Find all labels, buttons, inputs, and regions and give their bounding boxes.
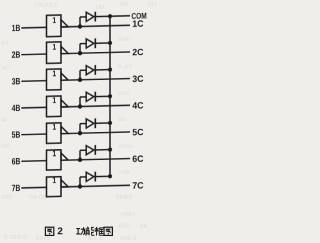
wire output of U1 to 1C	[61, 25, 130, 27]
diode D1 (output 1C to COM)	[86, 11, 110, 21]
wire output of U4 to 4C	[61, 105, 130, 107]
svg-text:AN0: AN0	[118, 36, 131, 43]
wire output of U6 to 6C	[61, 159, 130, 161]
wire input 4B to buffer U4	[21, 106, 46, 109]
wire node up to diode D6 anode	[80, 150, 86, 160]
svg-text:M8: M8	[1, 143, 10, 150]
wire node up to diode D1 anode	[80, 17, 86, 27]
svg-text:8888: 8888	[36, 235, 51, 242]
svg-text:80: 80	[1, 40, 9, 47]
svg-text:09089,1: 09089,1	[34, 2, 58, 9]
node on output 5C line (junction dot)	[78, 131, 82, 136]
buffer U6 (box "1" driver)	[47, 150, 69, 170]
node diode D2 cathode on COM rail	[108, 41, 112, 45]
output label 7C	[133, 182, 144, 189]
wire node up to diode D5 anode	[80, 124, 86, 134]
buffer U5 (box "1" driver)	[47, 123, 69, 144]
svg-text:WF: WF	[1, 65, 11, 72]
buffer U4 (box "1" driver)	[47, 96, 69, 117]
node diode D7 cathode on COM rail	[108, 174, 112, 178]
input label 2B	[12, 51, 20, 57]
svg-text:888 8: 888 8	[120, 235, 137, 242]
diode D2 (output 2C to COM)	[86, 38, 110, 48]
node diode D5 cathode on COM rail	[108, 121, 112, 125]
node on output 7C line (junction dot)	[78, 184, 82, 189]
output label 3C	[133, 75, 144, 82]
svg-text:88: 88	[140, 223, 148, 230]
svg-text:An80: An80	[118, 143, 134, 150]
svg-text:A88: A88	[118, 169, 130, 176]
wire output of U7 to 7C	[61, 185, 130, 187]
svg-text:8B: 8B	[120, 1, 128, 8]
input label 5B	[12, 131, 20, 137]
input label 4B	[12, 105, 20, 111]
wire node up to diode D2 anode	[80, 44, 86, 54]
node diode D3 cathode on COM rail	[108, 67, 112, 71]
svg-text:6.1m: 6.1m	[118, 63, 132, 70]
node on output 6C line (junction dot)	[78, 158, 82, 163]
diode D4 (output 4C to COM)	[86, 91, 110, 101]
COM rail (common cathode vertical wire)	[109, 16, 111, 176]
svg-text:W: W	[1, 117, 8, 124]
wire output of U3 to 3C	[61, 79, 130, 81]
buffer U7 (box "1" driver)	[47, 176, 69, 196]
wire COM rail to COM pin	[110, 15, 130, 17]
svg-text:8 98800: 8 98800	[4, 234, 28, 241]
wire output of U5 to 5C	[61, 132, 130, 134]
wire input 7B to buffer U7	[21, 186, 46, 189]
diode D5 (output 5C to COM)	[86, 118, 110, 128]
wire node up to diode D3 anode	[80, 70, 86, 80]
wire node up to diode D4 anode	[80, 97, 86, 107]
node diode D4 cathode on COM rail	[108, 94, 112, 98]
svg-text:ab8: ab8	[118, 90, 129, 97]
svg-text:0M88: 0M88	[116, 194, 133, 201]
wire input 6B to buffer U6	[21, 160, 46, 163]
svg-text:8b 08: 8b 08	[30, 194, 47, 201]
output label 1C	[133, 20, 143, 27]
diode D3 (output 3C to COM)	[86, 65, 110, 75]
node on output 4C line (junction dot)	[78, 104, 82, 109]
pin label COM	[132, 13, 147, 19]
wire input 1B to buffer U1	[21, 26, 46, 29]
diode D6 (output 6C to COM)	[86, 145, 110, 155]
input label 7B	[12, 185, 20, 191]
wire input 3B to buffer U3	[21, 80, 46, 83]
wire output of U2 to 2C	[61, 52, 130, 54]
output label 6C	[133, 155, 144, 162]
wire input 2B to buffer U2	[21, 53, 46, 56]
svg-text:M8 8: M8 8	[88, 235, 103, 242]
node diode D6 cathode on COM rail	[108, 147, 112, 151]
diode D7 (output 7C to COM)	[86, 171, 110, 181]
output label 5C	[133, 129, 144, 136]
node on output 3C line (junction dot)	[78, 78, 82, 83]
svg-text:8d: 8d	[118, 116, 126, 123]
output label 4C	[132, 102, 143, 109]
node on output 2C line (junction dot)	[78, 51, 82, 56]
buffer U1 (box "1" driver)	[47, 15, 69, 37]
output label 2C	[133, 49, 144, 56]
node on output 1C line (junction dot)	[78, 24, 82, 29]
svg-text:A884: A884	[120, 211, 136, 218]
wire node up to diode D7 anode	[80, 177, 86, 187]
buffer U3 (box "1" driver)	[47, 69, 69, 90]
input label 6B	[12, 158, 20, 165]
input label 3B	[12, 78, 20, 85]
svg-text:8H: 8H	[148, 1, 157, 8]
node diode D1 cathode on COM rail	[108, 14, 112, 18]
svg-text:1M: 1M	[95, 4, 104, 11]
wire input 5B to buffer U5	[21, 133, 46, 136]
caption: 图 2 功能框图	[45, 227, 112, 236]
svg-text:AB0: AB0	[118, 223, 131, 230]
input label 1B	[12, 25, 20, 31]
svg-text:888: 888	[1, 194, 12, 201]
buffer U2 (box "1" driver)	[47, 42, 69, 64]
